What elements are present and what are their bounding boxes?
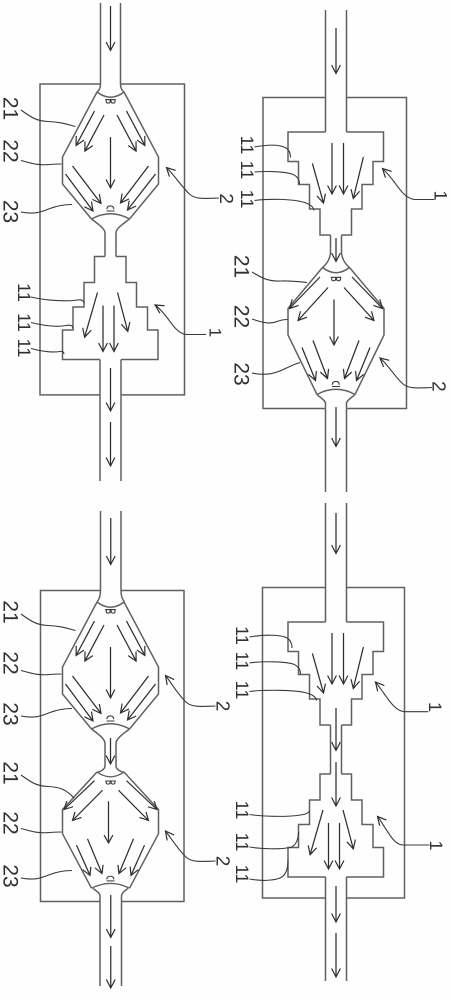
panel 4 border frame	[263, 588, 405, 899]
leader line for label 23 panel 2	[252, 363, 300, 375]
panel 3 border frame	[41, 591, 185, 902]
leader line 21b panel 3	[21, 775, 74, 798]
panel 2 throat walls with flare into diamond	[323, 235, 350, 268]
leader line 23b panel 3	[21, 871, 72, 880]
panel 4 outlet channel walls	[326, 877, 347, 981]
svg-text:2: 2	[215, 193, 236, 204]
svg-text:21: 21	[0, 97, 22, 120]
svg-text:23: 23	[0, 702, 22, 725]
panel 2 inlet flow arrow	[335, 28, 337, 74]
stepped chamber 1 of panel 2 (contracting)	[288, 132, 384, 235]
stepped chamber 1 arrows	[85, 293, 128, 352]
panel 1 funnel and throat walls between chamber 2 and chamber 1	[92, 219, 130, 257]
panel 2 throat flow arrow	[335, 238, 337, 262]
panel 3 funnel and throat between diamonds	[92, 729, 130, 773]
leader line for first 11 panel 1	[31, 297, 84, 304]
panel 4 connecting channel walls	[331, 725, 342, 774]
panel 4 outlet flow arrow a	[335, 886, 337, 922]
svg-text:11: 11	[232, 801, 252, 820]
panel 1 outlet flow arrow b	[110, 422, 112, 466]
svg-text:23: 23	[230, 362, 253, 385]
panel 1 border frame	[40, 84, 185, 395]
panel 3 throat flow arrow	[110, 738, 112, 764]
leader line 11-1b panel 4	[250, 811, 310, 817]
leader line for third 11 panel 1	[31, 349, 64, 355]
panel 1 outlet flow arrow a	[110, 368, 112, 411]
stepped chamber 1b arrows panel 4	[310, 810, 353, 869]
svg-text:11: 11	[232, 865, 252, 884]
mixing chamber 2 (diamond) of panel 2	[288, 268, 384, 395]
svg-text:11: 11	[237, 190, 257, 209]
panel 3 inlet flow arrow	[110, 518, 112, 565]
leader line 11-3a panel 4	[250, 690, 317, 700]
leader line for second 11 panel 2	[255, 172, 300, 184]
panel 1 inlet channel walls	[97, 3, 124, 92]
panel 4 outlet flow arrow b	[335, 933, 337, 977]
svg-text:22: 22	[230, 305, 253, 328]
leader line for third 11 panel 2	[255, 199, 315, 210]
svg-text:2: 2	[428, 381, 449, 392]
leader line for label 22 panel 1	[21, 161, 62, 165]
stepped chamber 1a arrows panel 4	[312, 633, 363, 693]
leader line 23a panel 3	[21, 709, 72, 718]
mixing chamber 2b (second diamond) of panel 3	[63, 772, 159, 888]
stepped chamber 1b of panel 4 (expanding)	[288, 774, 384, 877]
leader arrow for label 2 panel 2	[380, 358, 432, 388]
panel 4 inlet flow arrow	[335, 513, 337, 554]
panel 2 inlet channel walls	[326, 10, 347, 132]
leader line for second 11 panel 1	[31, 323, 73, 329]
leader line 11-2b panel 4	[250, 832, 299, 849]
leader line 21a panel 3	[21, 614, 76, 631]
leader arrow for label 1 panel 1	[155, 305, 206, 335]
svg-text:23: 23	[0, 200, 22, 223]
svg-text:11: 11	[232, 626, 252, 645]
svg-text:21: 21	[230, 255, 253, 278]
panel 1 inlet flow arrow	[110, 6, 112, 51]
svg-text:21: 21	[0, 600, 22, 623]
panel 4 connecting channel arrow b	[335, 762, 337, 806]
panel 2 funnel to outlet	[317, 395, 355, 493]
leader arrow for label 1 panel 2	[383, 169, 435, 200]
leader line 22a panel 3	[21, 671, 62, 675]
panel 2 outlet flow arrow	[335, 407, 337, 447]
leader line 11-1a panel 4	[250, 635, 293, 648]
panel 3 funnel to outlet	[93, 889, 128, 987]
svg-text:11: 11	[232, 833, 252, 852]
stepped chamber 1a of panel 4 (contracting)	[288, 622, 384, 725]
svg-text:23: 23	[0, 864, 22, 887]
svg-text:11: 11	[232, 652, 252, 671]
panel 4 inlet channel walls	[326, 503, 347, 622]
svg-text:22: 22	[0, 139, 22, 162]
svg-text:11: 11	[237, 161, 257, 180]
svg-text:11: 11	[237, 136, 257, 155]
panel 3 outlet flow arrow a	[110, 895, 112, 938]
leader line for label 23 panel 1	[21, 205, 72, 214]
leader arrow 1b panel 4	[378, 817, 430, 846]
mixing chamber 2 (diamond) of panel 1	[63, 92, 159, 219]
leader line for label 21 panel 1	[21, 110, 76, 127]
svg-text:1: 1	[206, 328, 225, 337]
svg-text:21: 21	[0, 761, 22, 784]
svg-text:11: 11	[14, 283, 34, 302]
leader arrow 1a panel 4	[376, 682, 429, 712]
leader line 11-2a panel 4	[250, 662, 301, 674]
panel 3 inlet channel walls	[97, 511, 125, 602]
leader line for label 22 panel 2	[252, 319, 288, 323]
svg-text:22: 22	[0, 811, 22, 834]
leader arrow for label 2 panel 1	[167, 168, 220, 199]
panel 2 border frame	[263, 98, 407, 409]
leader line 22b panel 3	[21, 829, 62, 833]
leader line for label 21 panel 2	[252, 272, 307, 283]
svg-text:11: 11	[14, 339, 34, 358]
stepped chamber 1 of panel 1	[63, 257, 159, 360]
panel 3 outlet flow arrow b	[110, 946, 112, 988]
leader line 11-3b panel 4	[250, 860, 289, 880]
svg-text:11: 11	[232, 681, 252, 700]
mixing chamber 2a (first diamond) of panel 3	[63, 602, 159, 729]
leader arrow 2a panel 3	[166, 676, 216, 707]
panel 1 outlet channel walls	[100, 360, 121, 482]
panel 4 connecting channel arrow a	[335, 708, 337, 751]
svg-text:22: 22	[0, 651, 22, 674]
leader line for first 11 panel 2	[255, 145, 291, 157]
svg-text:1: 1	[425, 702, 445, 712]
leader arrow 2b panel 3	[166, 831, 216, 861]
stepped chamber 1 arrows panel 2	[312, 143, 363, 203]
